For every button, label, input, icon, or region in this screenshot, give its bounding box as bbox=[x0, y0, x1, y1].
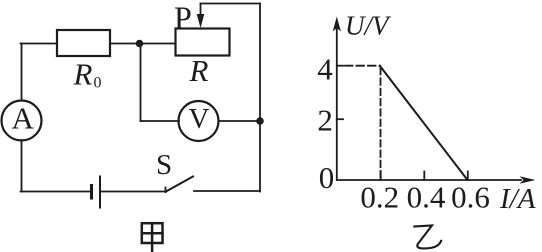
wire: voltmeter branch left horizontal bbox=[141, 120, 180, 122]
label A bbox=[12, 101, 35, 136]
wire: battery to switch bbox=[101, 191, 166, 193]
tick: I=0.6 bbox=[467, 172, 469, 181]
svg-text:4: 4 bbox=[317, 51, 333, 86]
wire: voltmeter to right vertical bbox=[219, 120, 261, 122]
svg-text:0.2: 0.2 bbox=[360, 179, 399, 214]
voltmeter V bbox=[179, 101, 219, 141]
wire: left vertical (ammeter to bottom wire) bbox=[21, 140, 23, 192]
wire: bottom left horizontal to battery bbox=[21, 191, 91, 193]
wire: R0 to rheostat R bbox=[110, 43, 176, 45]
dashed guide: horizontal U=4 bbox=[345, 65, 380, 67]
slider P arrow bbox=[197, 4, 205, 29]
svg-text:P: P bbox=[174, 0, 192, 36]
label R0 bbox=[73, 57, 102, 92]
tick: I=0.4 bbox=[423, 172, 425, 181]
label jia (Chinese character for diagram 1) bbox=[142, 223, 163, 251]
svg-text:R: R bbox=[73, 57, 93, 92]
wire: right vertical bbox=[259, 4, 261, 192]
label I/A bbox=[499, 183, 536, 215]
svg-text:R: R bbox=[189, 53, 209, 88]
wire: left vertical (top wire to ammeter) bbox=[21, 44, 23, 101]
wire: top left horizontal to R0 bbox=[21, 43, 57, 45]
graph Y axis U/V bbox=[333, 17, 341, 181]
svg-text:0: 0 bbox=[94, 75, 102, 92]
tick: I=0.2 bbox=[380, 172, 382, 181]
label 2 bbox=[317, 103, 333, 138]
svg-text:0.6: 0.6 bbox=[451, 179, 490, 214]
label R bbox=[189, 53, 209, 88]
node: junction dot on right vertical bbox=[256, 117, 264, 125]
svg-text:U/V: U/V bbox=[345, 11, 392, 41]
switch S bbox=[166, 177, 261, 193]
dashed guide: vertical I=0.2 bbox=[380, 68, 382, 180]
tick: U=2 bbox=[337, 118, 343, 120]
svg-text:V: V bbox=[189, 103, 210, 135]
svg-text:2: 2 bbox=[317, 103, 333, 138]
rheostat R bbox=[176, 29, 230, 56]
battery bbox=[92, 177, 101, 208]
label U/V bbox=[345, 11, 392, 41]
ammeter A bbox=[2, 101, 42, 141]
label 0.6 bbox=[451, 179, 490, 214]
svg-text:I/A: I/A bbox=[499, 183, 536, 215]
wire: voltmeter branch vertical bbox=[140, 44, 142, 122]
svg-text:0: 0 bbox=[319, 160, 335, 195]
svg-text:A: A bbox=[12, 101, 35, 136]
node: junction dot on top wire bbox=[136, 40, 144, 48]
wire: slider top horizontal bbox=[201, 3, 261, 5]
graph X axis I/A bbox=[337, 176, 536, 184]
svg-text:0.4: 0.4 bbox=[407, 179, 446, 214]
label 0 bbox=[319, 160, 335, 195]
label 0.2 bbox=[360, 179, 399, 214]
resistor R0 bbox=[57, 30, 110, 56]
label yi (Chinese character for diagram 2) bbox=[413, 225, 441, 248]
tick: U=4 bbox=[337, 65, 343, 67]
label 0.4 bbox=[407, 179, 446, 214]
label P bbox=[174, 0, 192, 36]
label 4 bbox=[317, 51, 333, 86]
data line U-I bbox=[380, 66, 468, 180]
svg-text:S: S bbox=[156, 149, 172, 181]
label S bbox=[156, 149, 172, 181]
label V bbox=[189, 103, 210, 135]
